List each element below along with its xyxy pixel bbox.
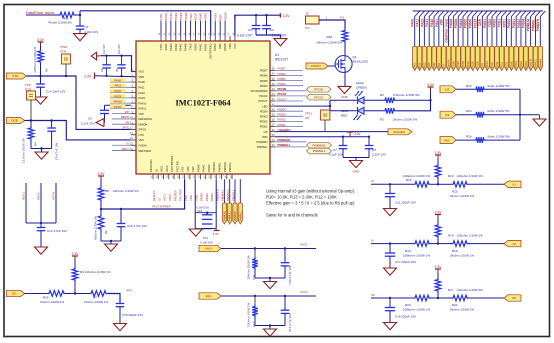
svg-text:P0303: P0303 xyxy=(260,115,268,119)
svg-text:3.3V: 3.3V xyxy=(84,75,92,79)
ground below C18 xyxy=(384,323,397,330)
resistor R16 xyxy=(254,296,256,305)
node DataFlow junction xyxy=(79,14,81,16)
wire pin 33 stub xyxy=(275,146,306,148)
port tag P0008 xyxy=(451,46,455,70)
svg-text:0.1uF 10V: 0.1uF 10V xyxy=(200,241,213,245)
svg-text:TXD1: TXD1 xyxy=(501,62,504,69)
svg-text:REFU: REFU xyxy=(21,192,25,200)
wire IU node xyxy=(371,183,413,185)
port OutAdc0 xyxy=(388,129,412,135)
svg-text:PA11: PA11 xyxy=(419,62,422,68)
net label P0303 pin 39 xyxy=(275,115,303,117)
svg-text:R19: R19 xyxy=(452,249,458,253)
svg-text:PA00: PA00 xyxy=(114,78,121,82)
svg-text:PWMWH1: PWMWH1 xyxy=(278,138,291,142)
svg-text:C7: C7 xyxy=(333,148,337,152)
svg-text:P0303: P0303 xyxy=(278,113,287,117)
svg-text:FG: FG xyxy=(306,26,311,30)
svg-text:3.3V: 3.3V xyxy=(427,83,435,87)
resistor R15 xyxy=(438,183,451,185)
wire R15 to port IU- xyxy=(469,183,504,185)
wire 3.3V to R5 xyxy=(40,46,42,50)
capacitor C18 xyxy=(389,298,391,308)
wire stub pin 62 top xyxy=(170,21,172,37)
svg-text:P0402: P0402 xyxy=(174,12,178,20)
svg-text:100kohm 1/10W 1%: 100kohm 1/10W 1% xyxy=(403,308,430,312)
capacitor C14 xyxy=(40,76,42,84)
svg-text:P0006: P0006 xyxy=(260,74,268,78)
transistor Q1 IRLML2030 xyxy=(335,56,352,73)
svg-text:P0007: P0007 xyxy=(278,67,287,71)
svg-text:0ohm 1/10W 5%: 0ohm 1/10W 5% xyxy=(488,84,511,88)
wire VDD pin 25 down to ground cluster xyxy=(194,179,196,228)
wire header TXD1 xyxy=(501,17,503,47)
pin 21 bottom xyxy=(173,174,175,179)
off-sheet arrow upper left of IC xyxy=(91,52,96,60)
svg-text:IWADN: IWADN xyxy=(139,122,148,126)
wire zero-ohm join bus xyxy=(519,89,521,140)
port tag P0304 xyxy=(524,46,528,70)
svg-text:RXD1: RXD1 xyxy=(505,61,508,68)
pin 16 left xyxy=(131,150,136,152)
svg-text:P0401: P0401 xyxy=(199,12,203,20)
resistor R8 xyxy=(98,186,104,202)
ground below C17 xyxy=(384,268,397,275)
svg-text:P0008: P0008 xyxy=(452,61,455,69)
wire header PA40 xyxy=(433,17,435,47)
wire R4 C9 bottom rail xyxy=(31,148,52,150)
port tag RXD0 xyxy=(495,46,499,70)
svg-text:P0302: P0302 xyxy=(278,118,287,122)
wire stub pin 52 top xyxy=(219,21,221,37)
svg-text:TXD1: TXD1 xyxy=(159,43,163,50)
pin 59 top xyxy=(185,36,187,41)
capacitor C19 xyxy=(284,249,286,263)
svg-text:R3: R3 xyxy=(380,118,384,122)
capacitor C11 xyxy=(202,223,212,225)
wire LED2 cathode to R2 xyxy=(365,99,384,101)
pin 57 top xyxy=(195,36,197,41)
pin 3 left xyxy=(131,81,136,83)
svg-text:C16 4.7nF 10V: C16 4.7nF 10V xyxy=(127,224,147,228)
svg-text:IW3: IW3 xyxy=(444,138,450,142)
svg-text:TP11: TP11 xyxy=(305,112,312,116)
wire OK pin 36 to OutAdc0 tag xyxy=(275,131,388,133)
ground below R9 xyxy=(110,241,112,244)
resistor R23 xyxy=(474,112,486,118)
svg-text:0ohm 1/10W 5%: 0ohm 1/10W 5% xyxy=(488,109,511,113)
resistor R1 xyxy=(58,12,76,18)
pin 52 top xyxy=(219,36,221,41)
svg-text:3.3V: 3.3V xyxy=(98,172,106,176)
net label VIP pin 9 xyxy=(112,113,131,115)
pin 19 bottom xyxy=(163,174,165,179)
svg-text:PA22: PA22 xyxy=(423,62,426,69)
svg-text:VDF: VDF xyxy=(443,63,446,68)
ground below C13 xyxy=(35,247,48,254)
svg-text:0.1uF 10V: 0.1uF 10V xyxy=(329,153,343,157)
pin 26 bottom xyxy=(199,174,201,179)
svg-text:C15 220pF 10V: C15 220pF 10V xyxy=(122,313,143,317)
highlighted net label PA00 pin 3 xyxy=(110,81,131,83)
svg-text:DBR: DBR xyxy=(218,43,222,49)
wire header P0004 xyxy=(462,17,464,47)
svg-text:P0006: P0006 xyxy=(457,61,460,69)
pin 38 right xyxy=(270,120,275,122)
port tag P0006 xyxy=(456,46,460,70)
capacitor C12 xyxy=(284,296,286,310)
svg-text:PA22: PA22 xyxy=(420,19,424,27)
pin 40 right xyxy=(270,110,275,112)
port IU- xyxy=(504,181,521,187)
wire stub pin 64 top xyxy=(160,21,162,37)
pin 42 right xyxy=(270,100,275,102)
svg-text:PA01: PA01 xyxy=(438,62,441,69)
port tag PWMUH xyxy=(529,46,533,70)
svg-text:C1: C1 xyxy=(85,25,89,29)
net label P0304 pin 40 xyxy=(275,110,303,112)
wire to LED2 anode xyxy=(330,99,357,101)
wire R7 to IPFC node xyxy=(108,294,120,304)
svg-text:C8: C8 xyxy=(372,148,376,152)
capacitor C1 xyxy=(76,25,84,27)
svg-text:U1: U1 xyxy=(275,53,279,57)
resistor R19 xyxy=(438,243,451,245)
capacitor C7 xyxy=(342,137,344,146)
resistor R24 xyxy=(474,137,486,143)
wire R21 to port IW- xyxy=(469,297,504,299)
capacitor C2 xyxy=(266,15,268,25)
wire C14 to ground xyxy=(40,87,42,97)
svg-text:R14: R14 xyxy=(448,234,454,238)
svg-text:TXD1: TXD1 xyxy=(159,13,163,20)
svg-text:C10: C10 xyxy=(197,209,203,213)
svg-text:R10= 10.0K, R13 = 2.00K, R12 =: R10= 10.0K, R13 = 2.00K, R12 = 100K xyxy=(266,195,337,200)
svg-text:P0304: P0304 xyxy=(522,19,526,28)
svg-text:VTH: VTH xyxy=(12,74,18,78)
svg-text:P0002: P0002 xyxy=(467,61,470,69)
svg-text:P0002: P0002 xyxy=(464,19,468,28)
svg-text:VDF: VDF xyxy=(440,19,444,25)
svg-text:430ohm 1/10W 1%: 430ohm 1/10W 1% xyxy=(94,216,98,240)
svg-text:PWMWH1: PWMWH1 xyxy=(312,143,325,147)
svg-text:Effective gain = 3 * 5 / 6 = 2: Effective gain = 3 * 5 / 6 = 2.5 (due to… xyxy=(266,201,355,206)
port tag PWMUL xyxy=(533,46,537,70)
capacitor C17 xyxy=(389,244,391,253)
svg-text:PWMUH: PWMUH xyxy=(530,59,533,69)
wire R2 to pullup rail xyxy=(397,99,431,101)
port tag PA22 xyxy=(422,46,426,70)
svg-text:DataFlow_input: DataFlow_input xyxy=(444,18,448,43)
wire REF join rail xyxy=(26,222,56,224)
port IW- xyxy=(504,295,521,301)
svg-text:P0008: P0008 xyxy=(223,43,227,51)
pin 34 right xyxy=(270,141,275,143)
capacitor C8 xyxy=(368,137,370,146)
svg-text:VDD: VDD xyxy=(189,195,193,201)
wire R9 C16 bottom rail xyxy=(101,240,121,242)
port tag PWMVH1 xyxy=(234,179,236,203)
svg-text:PWMUH: PWMUH xyxy=(212,162,216,172)
svg-text:REFWADN: REFWADN xyxy=(139,117,153,121)
wire header P0001 xyxy=(486,17,488,47)
svg-text:C21 220pF 10V: C21 220pF 10V xyxy=(395,200,416,204)
ground below C21 xyxy=(384,209,397,216)
capacitor C10 xyxy=(206,213,208,215)
wire R19 to port IV- xyxy=(469,243,504,245)
svg-text:P0302: P0302 xyxy=(517,19,521,28)
port VAC- xyxy=(199,293,221,299)
resistor R17 xyxy=(435,278,441,294)
wire stub pin 58 top xyxy=(190,21,192,37)
wire IV3 to R23 xyxy=(456,114,474,116)
svg-text:VAC2: VAC2 xyxy=(300,290,308,294)
svg-text:Same for Iv and Iw channels: Same for Iv and Iw channels xyxy=(266,213,318,218)
svg-text:R5: R5 xyxy=(45,68,49,72)
wire cap cluster bottom rail xyxy=(195,228,216,230)
svg-text:0ohm 1/10W 5%: 0ohm 1/10W 5% xyxy=(488,135,511,139)
capacitor C15 xyxy=(116,303,125,305)
svg-text:VTH: VTH xyxy=(60,50,66,54)
svg-text:C12 4.7nF 10V: C12 4.7nF 10V xyxy=(288,313,292,332)
svg-text:PFC00: PFC00 xyxy=(314,87,323,91)
port tag P0001 xyxy=(485,46,489,70)
svg-text:P0403: P0403 xyxy=(169,12,173,20)
capacitor C3 xyxy=(255,15,257,25)
svg-text:3.3V: 3.3V xyxy=(213,232,219,236)
svg-text:P0002: P0002 xyxy=(205,193,209,201)
wire stub pin 60 top xyxy=(180,21,182,37)
pin 5 left xyxy=(131,92,136,94)
wire pin 43 stub xyxy=(275,95,306,97)
net label P0007 pin 48 xyxy=(275,69,303,71)
pin 33 right xyxy=(270,146,275,148)
svg-text:PWMUH1: PWMUH1 xyxy=(224,210,226,221)
port tag DataFlow_input xyxy=(446,46,450,70)
bus top-right header xyxy=(413,10,543,12)
resistor R10 xyxy=(435,164,441,180)
pin 18 bottom xyxy=(157,174,159,179)
svg-text:C13 4.7nF 10V: C13 4.7nF 10V xyxy=(47,229,67,233)
svg-text:PWMVH: PWMVH xyxy=(539,59,542,69)
svg-text:15Kohm 1/10W 1%: 15Kohm 1/10W 1% xyxy=(247,255,251,280)
svg-text:47ohm 1/10W 5%: 47ohm 1/10W 5% xyxy=(48,21,72,25)
svg-text:PA33: PA33 xyxy=(428,62,431,69)
svg-text:P0100: P0100 xyxy=(476,61,479,69)
wire header P0300 xyxy=(510,17,512,47)
net label P0302 pin 38 xyxy=(275,120,303,122)
svg-text:IRLML2030: IRLML2030 xyxy=(353,60,369,64)
pin 28 bottom xyxy=(210,174,212,179)
pin 50 top xyxy=(229,36,231,41)
wire LED1 cathode to R3 xyxy=(365,110,384,112)
wire DC+ rail to pin 14 xyxy=(25,121,131,140)
svg-text:P0403: P0403 xyxy=(169,43,173,51)
svg-text:VAC2: VAC2 xyxy=(165,165,169,172)
svg-text:VSS: VSS xyxy=(139,70,145,74)
svg-text:PWMUH: PWMUH xyxy=(527,18,531,31)
svg-text:P0300: P0300 xyxy=(510,61,513,69)
highlighted net label P0410 pin 7 xyxy=(110,102,131,104)
svg-text:1nF 10V: 1nF 10V xyxy=(102,44,106,54)
wire header P0100 xyxy=(476,17,478,47)
pin 4 left xyxy=(131,86,136,88)
wire header VDF xyxy=(443,17,445,47)
svg-text:2Kohm 1/10W 1%: 2Kohm 1/10W 1% xyxy=(450,253,475,257)
pin 53 top xyxy=(214,36,216,41)
pin 24 bottom xyxy=(189,174,191,179)
resistor R18 xyxy=(413,241,431,247)
wire to LED1 anode xyxy=(330,110,357,112)
svg-text:PWMVH: PWMVH xyxy=(536,18,540,31)
ground below VAC+ xyxy=(269,278,271,282)
svg-text:2Kohm 1/10W 1%: 2Kohm 1/10W 1% xyxy=(450,194,475,198)
wire R23 to bus xyxy=(486,114,520,116)
wire LED pin 41 to LED node xyxy=(275,105,330,107)
resistor R22 xyxy=(474,87,486,93)
off-sheet arrow at C6 xyxy=(96,119,104,127)
wire stub pin 59 top xyxy=(185,21,187,37)
op-amp U1 IC body IMC102T-F064 xyxy=(136,41,270,174)
wire VAC+ rail xyxy=(221,248,316,250)
wire R16 C12 bottom rail xyxy=(255,325,285,327)
power 3.3V for R8 xyxy=(100,176,102,180)
svg-text:PFCTRIPREF: PFCTRIPREF xyxy=(152,205,171,209)
pin 25 bottom xyxy=(194,174,196,179)
wire header RXD1 xyxy=(505,17,507,47)
svg-text:R15: R15 xyxy=(452,190,458,194)
svg-text:VAC2: VAC2 xyxy=(168,194,172,201)
pin 48 right xyxy=(270,69,275,71)
port VTH xyxy=(6,73,26,79)
ground below C15 xyxy=(114,324,127,331)
svg-text:R21: R21 xyxy=(452,303,458,307)
svg-text:IU: IU xyxy=(157,198,161,201)
wire DC- to R25 xyxy=(25,293,48,295)
pin 51 top xyxy=(224,36,226,41)
svg-text:4.87kohm 1/10W 1%: 4.87kohm 1/10W 1% xyxy=(33,47,37,73)
svg-text:C17 220pF 10V: C17 220pF 10V xyxy=(395,260,416,264)
pin 7 left xyxy=(131,102,136,104)
svg-text:REFW: REFW xyxy=(51,191,55,200)
port tag PWMVH xyxy=(538,46,542,70)
port PWMWL1 xyxy=(307,148,332,154)
svg-text:FG: FG xyxy=(340,16,345,20)
svg-text:IW-: IW- xyxy=(512,296,517,300)
wire header PA11 xyxy=(419,17,421,47)
svg-text:PA11: PA11 xyxy=(139,86,146,90)
wire header PWMVH xyxy=(539,17,541,47)
pin 11 left xyxy=(131,123,136,125)
svg-text:R4: R4 xyxy=(34,142,38,146)
pin 60 top xyxy=(180,36,182,41)
svg-text:PA22: PA22 xyxy=(139,91,146,95)
svg-text:PFC01: PFC01 xyxy=(314,95,323,99)
svg-text:VDD: VDD xyxy=(228,43,232,49)
wire VDD pin 35 rail xyxy=(275,136,369,138)
port IU3 xyxy=(440,86,456,93)
pin 20 bottom xyxy=(168,174,170,179)
wire header PA01 xyxy=(438,17,440,47)
svg-text:3.3V: 3.3V xyxy=(354,132,361,136)
svg-text:RXD0: RXD0 xyxy=(496,61,499,68)
svg-text:VDD: VDD xyxy=(139,75,145,79)
svg-text:VAC-: VAC- xyxy=(206,294,213,298)
svg-text:P0004: P0004 xyxy=(459,19,463,28)
wire 3.3V rail to pin 2 xyxy=(95,76,137,77)
svg-text:C19 4.7nF 10V: C19 4.7nF 10V xyxy=(288,266,292,285)
svg-text:Using internal x3 gain (withou: Using internal x3 gain (without external… xyxy=(266,189,355,194)
svg-text:P0411: P0411 xyxy=(139,107,147,111)
wire R25 R7 junction xyxy=(66,293,89,295)
svg-text:10Kohm 1/10W 1%: 10Kohm 1/10W 1% xyxy=(457,234,483,238)
net label REFV pin 16 xyxy=(112,150,131,152)
port tag RXD1 xyxy=(504,46,508,70)
svg-text:PA01: PA01 xyxy=(435,19,439,27)
svg-text:PA33: PA33 xyxy=(139,96,146,100)
svg-text:1nF 10V: 1nF 10V xyxy=(117,44,121,54)
svg-text:REFU17: REFU17 xyxy=(152,190,156,201)
svg-text:TXD0: TXD0 xyxy=(491,62,494,69)
svg-text:P0411: P0411 xyxy=(114,105,122,109)
svg-text:TXD1: TXD1 xyxy=(498,19,502,27)
svg-text:2.2uF 10V: 2.2uF 10V xyxy=(272,34,288,38)
svg-text:LED2: LED2 xyxy=(356,81,364,85)
svg-text:R9: R9 xyxy=(104,230,108,234)
svg-text:P0OUT: P0OUT xyxy=(278,97,288,101)
led LED1 red xyxy=(357,107,359,115)
svg-text:PA22: PA22 xyxy=(114,89,121,93)
svg-text:VDD: VDD xyxy=(186,166,190,172)
resistor R2 xyxy=(383,98,397,104)
svg-text:IPFC: IPFC xyxy=(123,126,129,130)
port tag P0002 xyxy=(466,46,470,70)
svg-text:R26: R26 xyxy=(326,35,332,39)
power 3.3V for R14 xyxy=(437,215,439,219)
port PFC01 xyxy=(307,94,332,100)
svg-text:TXD0: TXD0 xyxy=(488,19,492,27)
wire REFW stub xyxy=(55,183,57,223)
svg-text:P0410: P0410 xyxy=(139,101,147,105)
wire R24 to bus xyxy=(486,139,520,141)
resistor R3 xyxy=(383,108,397,114)
svg-text:VAC1: VAC1 xyxy=(163,194,167,201)
svg-text:VAC+: VAC+ xyxy=(205,247,213,251)
svg-text:R12: R12 xyxy=(406,178,412,182)
port IV- xyxy=(504,240,521,246)
svg-text:3.3V: 3.3V xyxy=(72,252,80,256)
resistor R4 xyxy=(30,121,32,127)
wire IV node xyxy=(371,243,413,245)
svg-text:C3: C3 xyxy=(248,28,252,32)
svg-text:R7: R7 xyxy=(93,296,97,300)
svg-text:24Kohm 1/10W 1%: 24Kohm 1/10W 1% xyxy=(113,189,139,193)
svg-text:P0004: P0004 xyxy=(207,164,211,172)
svg-text:10Kohm 1/10W 1%: 10Kohm 1/10W 1% xyxy=(457,288,483,292)
svg-text:R10: R10 xyxy=(448,174,454,178)
power 3.3V for R6 xyxy=(74,256,76,260)
pin 64 top xyxy=(160,36,162,41)
wire header DBR xyxy=(481,17,483,47)
port tag P0004 xyxy=(461,46,465,70)
svg-text:IVADN: IVADN xyxy=(139,143,147,147)
svg-text:TP10: TP10 xyxy=(60,45,68,49)
port tag VDF xyxy=(442,46,446,70)
wire R20 to node xyxy=(431,297,438,299)
svg-text:PWMWL1: PWMWL1 xyxy=(278,143,291,147)
wire header PA33 xyxy=(428,17,430,47)
